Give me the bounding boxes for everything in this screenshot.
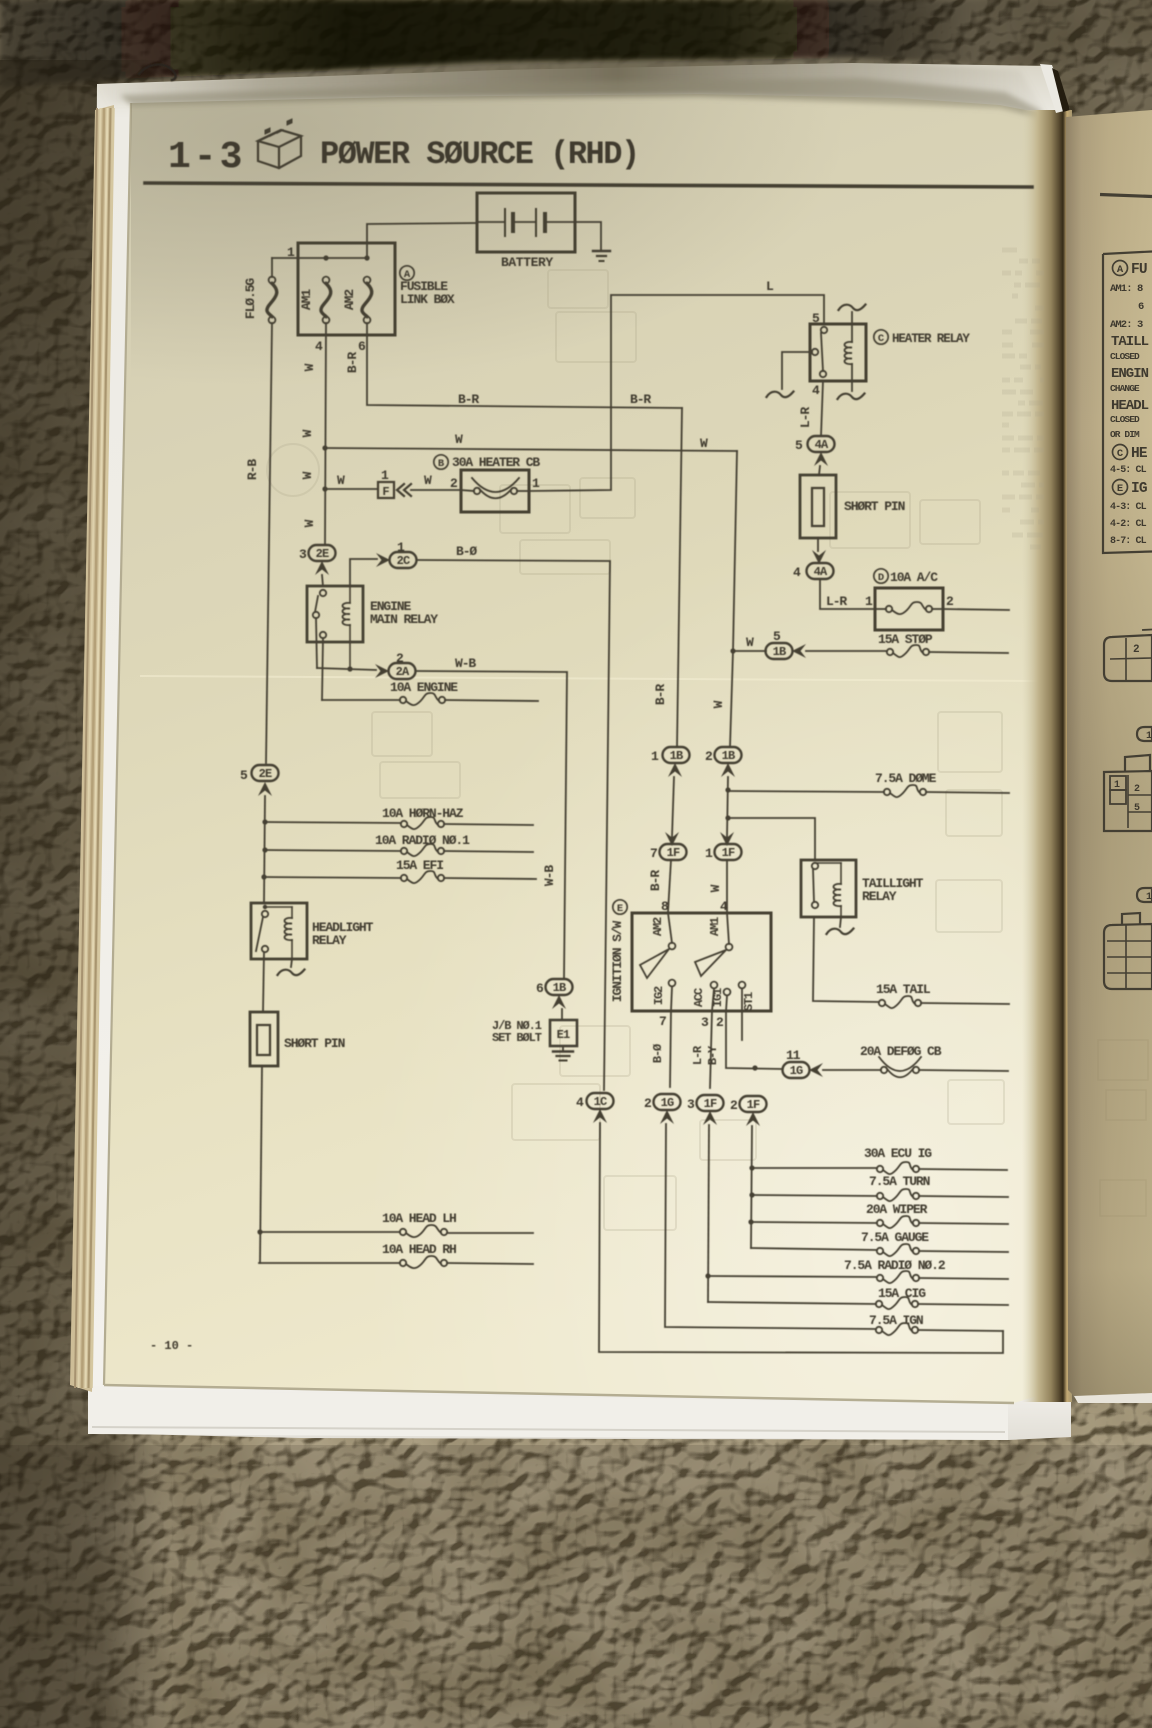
- hair on page top: [139, 65, 176, 80]
- svg-text:BATTERY: BATTERY: [501, 255, 553, 270]
- svg-text:AM2: 3: AM2: 3: [1110, 319, 1143, 331]
- arrow into 4(4A): [812, 550, 826, 564]
- wire 2(1G) to 7.5A IGN: [665, 1124, 876, 1329]
- svg-text:B-R: B-R: [648, 870, 663, 891]
- svg-text:4A: 4A: [815, 438, 829, 452]
- ignition switch box E: [632, 913, 771, 1011]
- svg-text:1G: 1G: [790, 1064, 803, 1078]
- svg-text:MAIN RELAY: MAIN RELAY: [370, 612, 438, 627]
- svg-text:L-R: L-R: [826, 594, 847, 609]
- spine gap dark sliver top right: [1052, 68, 1070, 112]
- svg-text:7.5A GAUGE: 7.5A GAUGE: [861, 1230, 929, 1245]
- svg-text:20A WIPER: 20A WIPER: [866, 1202, 928, 1217]
- svg-text:1-3: 1-3: [168, 136, 245, 179]
- svg-text:IGNITIØN S/W: IGNITIØN S/W: [610, 920, 625, 1002]
- svg-text:10A A/C: 10A A/C: [890, 570, 938, 585]
- svg-text:10A ENGINE: 10A ENGINE: [390, 680, 458, 695]
- wire branch to taillight relay: [728, 818, 815, 860]
- page bottom edge shadow line: [104, 1385, 1014, 1403]
- svg-text:1G: 1G: [661, 1096, 674, 1110]
- svg-text:ST1: ST1: [742, 992, 756, 1011]
- engine main relay switch: [320, 590, 326, 596]
- wire ST1 stub: [741, 1011, 743, 1040]
- svg-text:IG: IG: [1131, 481, 1147, 497]
- ignition AM1 contact and wiper: [727, 913, 729, 944]
- svg-text:C: C: [1117, 448, 1124, 460]
- taillight relay box: [801, 860, 856, 917]
- svg-text:HEADL: HEADL: [1111, 398, 1149, 414]
- svg-text:L-R: L-R: [798, 407, 813, 428]
- wire W from AM1 pin4 down: [325, 323, 326, 545]
- ignition ACC contact: [711, 982, 718, 989]
- book spine gutter: [1022, 110, 1072, 1402]
- wire R-B rail from FL0.5G down to 5(2E): [266, 323, 272, 763]
- wire 2(1B) down with branches: [727, 777, 728, 837]
- wire 2(1F) feeding right fuse group: [751, 1126, 752, 1248]
- svg-text:15A STØP: 15A STØP: [878, 632, 933, 647]
- info box text: [1113, 261, 1128, 276]
- CB element 20A DEFOG: [881, 1067, 887, 1073]
- wire 20A DEFOG CB to page edge: [919, 1070, 1008, 1071]
- ground symbol below E1: [562, 1046, 564, 1051]
- svg-text:1C: 1C: [594, 1095, 607, 1109]
- svg-text:CLOSED: CLOSED: [1110, 414, 1140, 425]
- ignition ST1 contact: [739, 982, 746, 989]
- fuse element 10A A/C: [886, 606, 892, 612]
- svg-text:8-7: CL: 8-7: CL: [1110, 536, 1147, 547]
- right page heavy rule: [1100, 195, 1152, 197]
- svg-text:B: B: [438, 458, 445, 470]
- wire W rail to 2(1B): [730, 651, 733, 747]
- svg-text:AM1: AM1: [708, 917, 722, 936]
- arrow into 2(2A): [375, 664, 389, 678]
- ground at battery: [593, 250, 610, 252]
- wire IG1 down and right to 11(1G): [726, 1011, 782, 1069]
- wire B-R from AM2 pin6 to B-R bus: [367, 323, 682, 408]
- svg-text:B-R: B-R: [653, 684, 668, 705]
- wire taillight relay to 15A TAIL: [813, 917, 879, 1002]
- wire 1(1B) to 7(1F): [672, 777, 674, 837]
- svg-text:ACC: ACC: [692, 988, 706, 1007]
- svg-text:4-5: CL: 4-5: CL: [1110, 465, 1147, 476]
- svg-text:PØWER SØURCE (RHD): PØWER SØURCE (RHD): [320, 136, 639, 173]
- header rule: [145, 183, 1032, 187]
- fusible link box A: [298, 243, 395, 335]
- connector 3(2E): [309, 545, 336, 561]
- double chevron into F: [397, 484, 411, 496]
- squiggle below heater relay coil: [838, 394, 865, 400]
- svg-text:B-R: B-R: [345, 352, 360, 373]
- svg-text:A: A: [1117, 264, 1124, 276]
- fusible link AM2: [364, 277, 371, 284]
- right page oval 2: [1137, 888, 1152, 902]
- svg-text:2E: 2E: [259, 767, 272, 781]
- svg-text:CLOSED: CLOSED: [1110, 351, 1140, 362]
- wire W rail down to 15A STOP junction: [733, 451, 737, 651]
- right page ghost shapes: [1098, 1040, 1148, 1216]
- wire short pin down to head fuses: [260, 1066, 262, 1263]
- svg-text:R-B: R-B: [245, 459, 260, 480]
- wire 6(1B) to E1: [561, 1009, 563, 1020]
- fuse element 15A TAIL: [879, 1000, 885, 1006]
- wire 5(2E) down to headlight relay: [264, 796, 265, 902]
- cream page left edge shadow: [104, 103, 131, 1385]
- svg-text:1: 1: [1146, 892, 1152, 903]
- show-through ghosts from reverse side: [267, 270, 1004, 1230]
- svg-text:2C: 2C: [397, 554, 410, 568]
- svg-text:TAILL: TAILL: [1111, 334, 1149, 350]
- shadow band under top white edge: [0, 0, 1, 1]
- wire branch to 7.5A DOME: [728, 791, 884, 792]
- arrow into 7(1F): [665, 832, 679, 846]
- svg-text:1B: 1B: [773, 645, 786, 659]
- svg-text:15A CIG: 15A CIG: [878, 1286, 926, 1301]
- svg-text:2: 2: [1133, 644, 1139, 656]
- wire to 2(2A): [317, 668, 376, 670]
- svg-text:4-3: CL: 4-3: CL: [1110, 502, 1147, 513]
- svg-text:AM2: AM2: [651, 917, 665, 936]
- wire W-B from 2(2A) down to 6(1B): [416, 671, 567, 979]
- svg-text:2E: 2E: [316, 547, 329, 561]
- wire 11(1G) to 20A DEFOG CB: [823, 1069, 881, 1071]
- svg-text:1B: 1B: [722, 749, 735, 763]
- svg-text:1F: 1F: [667, 846, 680, 860]
- svg-text:FU: FU: [1131, 262, 1147, 278]
- svg-text:D: D: [878, 572, 884, 584]
- squiggle above heater relay coil: [839, 305, 866, 311]
- svg-text:B-Y: B-Y: [706, 1045, 720, 1065]
- wire B-O from 1(2C) to long rail: [417, 560, 610, 1090]
- wire chevron to heater CB box: [411, 489, 461, 491]
- main catalogue page: [104, 94, 1058, 1403]
- headlight relay switch: [263, 905, 267, 909]
- wire 15A STOP to page edge: [929, 652, 1008, 653]
- right page connector 3: [1104, 913, 1152, 989]
- svg-text:10A HØRN-HAZ: 10A HØRN-HAZ: [382, 806, 464, 821]
- heater relay box C: [810, 324, 866, 381]
- heater CB element: [474, 488, 480, 494]
- arrow into 1(1F): [720, 832, 734, 846]
- heater relay coil: [851, 312, 853, 342]
- svg-text:HE: HE: [1131, 446, 1148, 462]
- ignition AM2 contact and wiper: [668, 913, 672, 943]
- svg-text:C: C: [878, 333, 885, 345]
- bus inside fusible link box: [272, 257, 367, 259]
- faint fold crease across page: [140, 676, 1040, 681]
- wire 3(2E) into engine main relay: [322, 575, 323, 586]
- wire coil top to 1(2C): [350, 559, 377, 586]
- svg-text:1F: 1F: [722, 846, 735, 860]
- svg-text:10A HEAD RH: 10A HEAD RH: [382, 1242, 456, 1257]
- wire battery to ground: [575, 222, 601, 250]
- wire and connector 5(1B) 15A STOP: [733, 650, 766, 652]
- svg-text:2A: 2A: [396, 665, 410, 679]
- wire ACC to 3(1F): [710, 1011, 712, 1088]
- svg-text:AM1: 8: AM1: 8: [1110, 283, 1143, 295]
- wire FL0.5G up to pin1: [271, 258, 273, 277]
- svg-text:30A HEATER CB: 30A HEATER CB: [452, 455, 540, 470]
- svg-text:2: 2: [1134, 784, 1140, 795]
- wire 4(1C) bottom loop to 7.5A IGN: [599, 1123, 1003, 1353]
- svg-text:7.5A TURN: 7.5A TURN: [869, 1174, 930, 1189]
- svg-text:4A: 4A: [814, 565, 828, 579]
- svg-text:E: E: [1117, 483, 1123, 495]
- right page info box border: [1103, 252, 1152, 554]
- svg-text:E: E: [617, 903, 623, 915]
- wire W bus to heater CB: [325, 488, 378, 490]
- svg-text:1F: 1F: [747, 1098, 760, 1112]
- battery cell symbol: [477, 221, 505, 223]
- taillight relay ground squiggle: [840, 917, 841, 927]
- battery B box: [477, 193, 575, 252]
- wire engine relay outputs: [316, 618, 317, 668]
- svg-text:AM1: AM1: [299, 289, 314, 310]
- heater relay switch: [821, 327, 827, 333]
- white page stack: [88, 63, 1071, 1440]
- wire 4(4A) to 10A A/C fuse: [820, 579, 875, 609]
- fusible link FL0.5G: [269, 277, 276, 284]
- wire 3(1F) to RADIO NO.2 and CIG: [708, 1125, 709, 1302]
- fusible link AM1: [323, 277, 330, 284]
- svg-text:- 10 -: - 10 -: [150, 1339, 193, 1353]
- svg-text:W-B: W-B: [542, 865, 557, 886]
- taillight relay switch: [812, 863, 818, 869]
- svg-text:HEATER RELAY: HEATER RELAY: [892, 332, 970, 346]
- headlight relay ground squiggle: [291, 959, 292, 967]
- svg-text:6: 6: [1138, 301, 1144, 313]
- svg-text:OR DIM: OR DIM: [1110, 429, 1140, 440]
- svg-text:7.5A RADIØ NØ.2: 7.5A RADIØ NØ.2: [844, 1258, 946, 1273]
- svg-text:10A RADIØ NØ.1: 10A RADIØ NØ.1: [375, 833, 470, 848]
- short pin (left): [250, 1012, 278, 1066]
- svg-text:1F: 1F: [704, 1097, 717, 1111]
- wire heater relay to 5(4A): [821, 381, 823, 436]
- svg-text:SET BØLT: SET BØLT: [492, 1031, 542, 1045]
- right page connector 1: [1104, 635, 1152, 681]
- svg-text:B-R: B-R: [630, 392, 651, 407]
- heater CB box B: [461, 470, 529, 512]
- wire 7.5A DOME to page edge: [926, 792, 1009, 793]
- wire IG2 to 2(1G): [670, 1011, 671, 1087]
- wire battery to fusible link box: [367, 223, 477, 258]
- page stack edges left side: [70, 105, 114, 1392]
- ignition IG2 contact: [669, 980, 676, 987]
- svg-text:30A ECU IG: 30A ECU IG: [864, 1146, 932, 1161]
- svg-text:5: 5: [1134, 803, 1140, 814]
- arrow into 1(2C): [376, 553, 390, 567]
- svg-text:7: 7: [650, 846, 657, 861]
- short pin (right): [800, 475, 836, 538]
- svg-text:15A TAIL: 15A TAIL: [876, 982, 931, 997]
- svg-text:F: F: [382, 485, 389, 499]
- svg-text:7.5A DØME: 7.5A DØME: [875, 771, 937, 786]
- svg-text:LINK BØX: LINK BØX: [400, 292, 455, 307]
- svg-text:AM2: AM2: [342, 289, 357, 310]
- battery icon: [258, 119, 301, 168]
- svg-text:FLØ.5G: FLØ.5G: [243, 278, 258, 320]
- wire W bus upper: [325, 448, 737, 451]
- svg-text:20A DEFØG CB: 20A DEFØG CB: [860, 1044, 942, 1059]
- engine main relay box: [307, 586, 363, 642]
- wire 10A A/C to page edge: [943, 609, 1009, 610]
- right page connector 2: [1104, 755, 1152, 831]
- svg-text:1B: 1B: [553, 981, 566, 995]
- svg-text:7: 7: [659, 1014, 666, 1029]
- svg-text:L-R: L-R: [691, 1045, 705, 1065]
- wire 1(1F) to ignition AM1 pin4: [726, 860, 728, 912]
- svg-text:E1: E1: [557, 1028, 570, 1042]
- wire B-R bus down to 1(1B): [677, 408, 682, 747]
- wire headlight relay to short pin: [263, 952, 264, 1012]
- svg-text:SHØRT PIN: SHØRT PIN: [284, 1036, 345, 1051]
- svg-text:7.5A IGN: 7.5A IGN: [869, 1313, 923, 1328]
- svg-text:B-R: B-R: [458, 392, 479, 407]
- svg-text:B-Ø: B-Ø: [651, 1044, 665, 1063]
- fuse 10A A/C box D: [875, 588, 943, 630]
- heater relay left ground leg: [782, 352, 812, 389]
- svg-text:4-2: CL: 4-2: CL: [1110, 519, 1147, 530]
- engine main relay coil: [343, 603, 351, 625]
- svg-text:CHANGE: CHANGE: [1110, 383, 1140, 394]
- wire 7(1F) to ignition AM2 pin8: [668, 860, 671, 912]
- svg-text:RELAY: RELAY: [862, 889, 897, 904]
- wire heater CB to L rail: [529, 295, 824, 491]
- svg-text:1: 1: [1146, 731, 1152, 742]
- fuse element 7.5A DOME: [884, 789, 890, 795]
- svg-text:IG1: IG1: [711, 988, 725, 1007]
- svg-text:RELAY: RELAY: [312, 933, 347, 948]
- wire 15A TAIL to page edge: [921, 1003, 1009, 1004]
- taillight relay coil: [815, 862, 841, 864]
- svg-text:B-Ø: B-Ø: [456, 544, 477, 559]
- right page oval 1: [1137, 727, 1152, 741]
- ignition IG1 contact: [724, 989, 731, 996]
- right page: [1066, 110, 1152, 1396]
- svg-text:ENGIN: ENGIN: [1111, 366, 1149, 382]
- headlight relay coil: [265, 906, 292, 908]
- svg-text:SHØRT PIN: SHØRT PIN: [844, 499, 905, 514]
- fuse element 15A STOP: [887, 649, 893, 655]
- svg-text:W-B: W-B: [455, 656, 476, 671]
- headlight relay box: [251, 903, 307, 959]
- svg-text:1B: 1B: [670, 749, 683, 763]
- svg-text:IG2: IG2: [652, 986, 666, 1005]
- svg-text:10A HEAD LH: 10A HEAD LH: [382, 1211, 456, 1226]
- white page corner at top right: [1040, 64, 1068, 113]
- svg-text:11: 11: [786, 1048, 801, 1063]
- svg-text:15A EFI: 15A EFI: [396, 858, 443, 873]
